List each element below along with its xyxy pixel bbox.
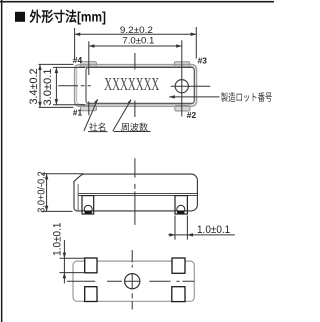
left terminal castellation circle — [84, 205, 92, 213]
pad #1 (bottom-left) — [81, 105, 97, 111]
dim 1.0 bottom extension lines — [60, 258, 85, 272]
svg-text:周波数: 周波数 — [121, 122, 149, 133]
dim 3.0+0/-0.2 arrows — [45, 174, 49, 212]
dim 9.2 arrows — [75, 33, 197, 37]
pad #4 (top-left) — [81, 62, 97, 68]
bottom pad top-right — [172, 258, 185, 273]
right terminal block — [175, 196, 187, 214]
bottom crosshair horizontal — [67, 280, 194, 282]
dim 3.4 extension lines — [39, 64, 74, 107]
leader to company name — [84, 99, 108, 131]
svg-text:7.0±0.1: 7.0±0.1 — [122, 36, 154, 46]
dim 1.0 side arrows — [169, 233, 193, 237]
svg-text:3.4±0.2: 3.4±0.2 — [28, 69, 40, 105]
bottom center circle — [125, 274, 140, 289]
leader to lot number — [169, 96, 219, 98]
svg-text:#4: #4 — [73, 55, 83, 65]
bottom pad bottom-left — [85, 287, 97, 302]
pad centerline right — [181, 40, 183, 116]
dim 7.0 arrows — [89, 44, 182, 48]
svg-text:1.0±0.1: 1.0±0.1 — [197, 224, 230, 236]
left terminal solder fill — [85, 211, 92, 214]
svg-text:3.0±0.1: 3.0±0.1 — [42, 69, 54, 106]
dim 1.0 side line — [168, 234, 235, 236]
bottom body outline — [73, 261, 194, 301]
bottom pad top-left — [85, 258, 97, 273]
body outer outline — [75, 65, 197, 107]
svg-text:9.2±0.2: 9.2±0.2 — [120, 25, 153, 35]
dim 1.0 bottom arrows — [63, 253, 67, 279]
dim 3.4 line — [39, 64, 41, 107]
side view centerline — [134, 158, 136, 225]
dim 1.0 bottom line — [63, 240, 65, 283]
title bullet — [15, 12, 25, 22]
bottom crosshair vertical — [131, 250, 133, 310]
dim 9.2 line — [75, 33, 197, 35]
right terminal castellation circle — [177, 205, 185, 213]
right terminal solder fill — [177, 211, 184, 214]
dim 3.4 arrows — [38, 64, 42, 107]
svg-text:XXXXXXX: XXXXXXX — [104, 74, 159, 94]
svg-text:3.0+0/-0.2: 3.0+0/-0.2 — [36, 171, 48, 213]
leader to frequency — [113, 100, 151, 132]
dim 7.0 line — [89, 45, 182, 47]
border frame left — [1, 0, 3, 322]
dim 3.0 line — [55, 67, 57, 104]
svg-text:#1: #1 — [73, 107, 83, 117]
centerline horizontal (top view) — [58, 85, 210, 87]
svg-text:外形寸法[mm]: 外形寸法[mm] — [30, 8, 107, 24]
svg-text:社名: 社名 — [89, 121, 107, 132]
dim 3.0 arrows — [55, 67, 59, 104]
svg-text:#2: #2 — [187, 110, 197, 120]
cavity rect — [86, 67, 194, 103]
centerline vertical (top view) — [134, 53, 136, 117]
svg-text:製造ロット番号: 製造ロット番号 — [221, 91, 272, 104]
side seam lines — [78, 193, 197, 195]
pad #3 (top-right) — [174, 62, 189, 68]
svg-text:1.0±0.1: 1.0±0.1 — [52, 223, 64, 256]
dim 3.0 extension lines — [53, 67, 85, 104]
side inner left wall — [77, 184, 79, 210]
bottom pad bottom-right — [172, 287, 185, 302]
dim 1.0 side extension lines — [175, 216, 187, 240]
pad #2 (bottom-right) — [175, 105, 190, 111]
dim 3.0+0/-0.2 extension lines — [41, 174, 84, 212]
border frame top — [0, 1, 274, 3]
dim 3.0+0/-0.2 line — [46, 174, 48, 212]
svg-text:#3: #3 — [198, 55, 208, 65]
side body outline — [74, 174, 197, 211]
dim 9.2 extension lines — [75, 27, 197, 60]
left terminal block — [82, 196, 94, 214]
body wall inner outline — [77, 67, 195, 105]
lot mark circle — [175, 80, 188, 93]
pad centerline left — [88, 41, 90, 115]
